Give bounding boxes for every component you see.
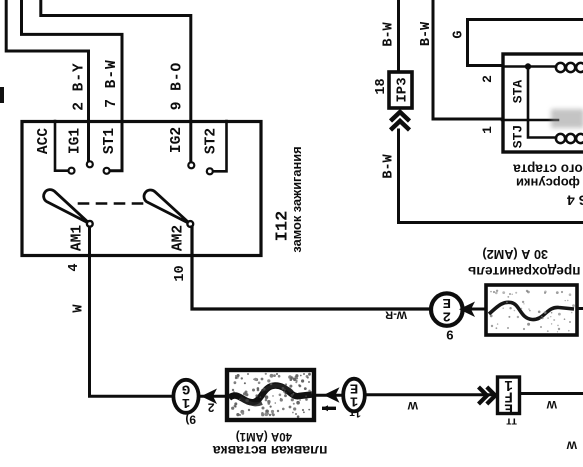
label IP3 text bbox=[395, 77, 411, 102]
wire B-W pin1 relay bbox=[433, 0, 502, 119]
gray smudge relay coil area bbox=[551, 109, 583, 128]
connector EF1 box bbox=[498, 377, 520, 414]
svg-text:W: W bbox=[546, 398, 557, 410]
label B-W below IP3 bbox=[382, 153, 397, 178]
ACC terminal bracket bbox=[55, 121, 68, 171]
label I12 bbox=[274, 211, 293, 242]
ST2 terminal bracket bbox=[214, 121, 227, 171]
speckle texture fuse 40A bbox=[231, 373, 311, 418]
svg-text:2 B-Y: 2 B-Y bbox=[71, 62, 87, 111]
svg-text:B-W: B-W bbox=[382, 21, 397, 46]
fuse 30A element wave bbox=[489, 302, 574, 319]
text 1E inside oval (flipped stack) bbox=[350, 379, 358, 408]
label G bbox=[452, 30, 467, 38]
wire pin10 AM2 down to 2E bbox=[192, 227, 430, 309]
svg-text:10: 10 bbox=[173, 265, 188, 281]
ACC terminal circle bbox=[69, 168, 75, 174]
svg-text:7 B-W: 7 B-W bbox=[104, 59, 120, 108]
svg-text:18: 18 bbox=[374, 78, 389, 94]
svg-text:W: W bbox=[72, 304, 87, 313]
svg-text:W: W bbox=[407, 399, 418, 411]
arrow into 1G bbox=[201, 389, 217, 405]
fusible link 40A element wave bbox=[229, 385, 312, 402]
svg-text:4: 4 bbox=[67, 263, 82, 271]
label замок зажигания bbox=[289, 146, 304, 252]
text 1G inside oval (flipped stack) bbox=[182, 381, 190, 410]
label relay pin 1 bbox=[480, 126, 495, 134]
label 9 B-O bbox=[170, 62, 186, 111]
label pin 4 bbox=[67, 263, 82, 271]
svg-text:реле форсунки: реле форсунки bbox=[516, 176, 583, 191]
junction to STJ wire bbox=[528, 67, 556, 138]
svg-text:1: 1 bbox=[480, 126, 495, 134]
connector IP3 box bbox=[389, 72, 412, 108]
wire to IG1 (B-Y) bbox=[6, 0, 88, 160]
IG1 terminal circle bbox=[87, 161, 93, 167]
chevrons up to IP3 bbox=[391, 112, 410, 130]
label pin 10 bbox=[173, 265, 188, 281]
label IG2 bbox=[169, 127, 185, 153]
wire G from right edge to relay pin2 bbox=[468, 20, 583, 66]
fuse 30A box bbox=[486, 285, 577, 335]
label AM2 bbox=[171, 225, 187, 251]
svg-text:тт: тт bbox=[506, 416, 517, 428]
svg-text:G: G bbox=[452, 30, 467, 38]
relay STA wire with junction bbox=[503, 65, 556, 68]
label IG1 bbox=[68, 128, 84, 154]
svg-text:IG2: IG2 bbox=[169, 127, 185, 153]
svg-text:IP3: IP3 bbox=[395, 77, 411, 102]
lever AM1 bbox=[44, 190, 90, 224]
svg-text:STA: STA bbox=[511, 80, 526, 104]
svg-text:E: E bbox=[443, 294, 451, 310]
svg-text:AM1: AM1 bbox=[70, 225, 86, 251]
dashed mechanical link bbox=[79, 202, 145, 205]
label relay pin 2 bbox=[480, 75, 495, 83]
svg-text:W: W bbox=[566, 439, 577, 451]
svg-text:2: 2 bbox=[480, 75, 495, 83]
svg-text:30 А (АМ2): 30 А (АМ2) bbox=[482, 247, 548, 261]
svg-text:замок зажигания: замок зажигания bbox=[289, 146, 304, 252]
relay STJ pin1 inner wire bbox=[502, 119, 558, 122]
text EF1 inside box (flipped stack) bbox=[504, 376, 513, 416]
svg-text:плавкая вставка: плавкая вставка bbox=[213, 443, 328, 459]
AM1 pivot circle bbox=[87, 221, 93, 227]
svg-text:9 B-O: 9 B-O bbox=[170, 62, 186, 111]
wire IP3 from top bbox=[397, 0, 400, 71]
wire 1E to EF1 bbox=[366, 393, 497, 396]
svg-text:S 4: S 4 bbox=[567, 193, 583, 209]
wire to IG2 (B-O) bbox=[41, 0, 191, 162]
scan smudge left edge bbox=[0, 87, 4, 103]
svg-text:холодного старта: холодного старта bbox=[513, 162, 583, 177]
svg-text:ST1: ST1 bbox=[102, 128, 118, 154]
svg-text:STJ: STJ bbox=[511, 125, 526, 148]
label 18 bbox=[374, 78, 389, 94]
svg-text:IG1: IG1 bbox=[68, 128, 84, 154]
ignition switch box I12 bbox=[22, 122, 261, 256]
svg-text:предохранитель: предохранитель bbox=[468, 264, 581, 279]
wire pin4 AM1 down to 1G bbox=[90, 227, 173, 396]
label W vertical bbox=[72, 304, 87, 313]
wire IP3 down then right to edge bbox=[399, 130, 583, 223]
svg-text:1: 1 bbox=[504, 376, 513, 392]
label ST2 bbox=[204, 128, 220, 154]
svg-text:W-R: W-R bbox=[385, 309, 407, 321]
label ACC bbox=[36, 128, 52, 154]
wire from fuse 40A right to 1E bbox=[316, 394, 343, 397]
svg-text:ACC: ACC bbox=[36, 128, 52, 154]
svg-text:B-W: B-W bbox=[382, 153, 397, 178]
svg-text:G: G bbox=[182, 381, 190, 397]
wire EF1 to right edge bbox=[521, 392, 583, 395]
wire to ST1 (B-W) bbox=[22, 0, 123, 171]
label ST1 bbox=[102, 128, 118, 154]
fusible link 40A box bbox=[227, 370, 314, 420]
svg-text:B-W: B-W bbox=[419, 21, 434, 46]
relay box (cold start injector) bbox=[503, 54, 583, 152]
svg-text:E: E bbox=[350, 379, 358, 395]
IG2 terminal circle bbox=[188, 162, 194, 168]
junction dot bbox=[525, 63, 531, 69]
connector oval 1E bbox=[343, 379, 365, 412]
text 2E inside oval (flipped stack) bbox=[443, 294, 451, 323]
label STJ bbox=[511, 125, 526, 148]
lever AM2 bbox=[144, 190, 190, 224]
ST1 terminal circle bbox=[104, 168, 110, 174]
connector oval 1G bbox=[173, 380, 198, 413]
ST2 terminal circle bbox=[207, 168, 213, 174]
label B-W top left of IP3 bbox=[382, 21, 397, 46]
AM2 pivot circle bbox=[187, 221, 193, 227]
svg-text:2: 2 bbox=[208, 401, 215, 415]
svg-text:40А (АМ1): 40А (АМ1) bbox=[236, 430, 292, 442]
small arrow mark under wire near 1E bbox=[322, 407, 336, 410]
coil STA bbox=[556, 63, 583, 72]
label 2 B-Y bbox=[71, 62, 87, 111]
wire from fuse 40A left side bbox=[200, 395, 226, 398]
svg-text:ST2: ST2 bbox=[204, 128, 220, 154]
label 7 B-W bbox=[104, 59, 120, 108]
svg-text:9: 9 bbox=[446, 328, 453, 343]
svg-text:9): 9) bbox=[185, 413, 196, 427]
coil STJ bbox=[556, 134, 583, 143]
wire right of fuse 30A bbox=[577, 307, 583, 310]
connector oval 2E bbox=[431, 293, 463, 325]
arrow into 2E bbox=[459, 302, 475, 318]
chevrons right to EF1 bbox=[479, 387, 496, 404]
label B-W top wire D bbox=[419, 21, 434, 46]
speckle texture fuse 30A bbox=[490, 290, 575, 333]
wire from 2E into fuse 30A bbox=[463, 308, 486, 311]
label STA bbox=[511, 80, 526, 104]
svg-text:AM2: AM2 bbox=[171, 225, 187, 251]
arrow into fuse 40A right bbox=[324, 387, 340, 402]
label AM1 bbox=[70, 225, 86, 251]
